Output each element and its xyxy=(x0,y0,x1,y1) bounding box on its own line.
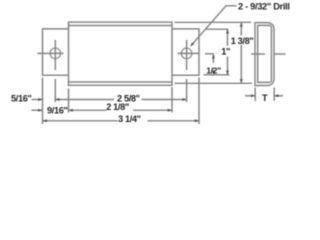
svg-text:2 1/8": 2 1/8" xyxy=(106,102,129,112)
svg-text:1 3/8": 1 3/8" xyxy=(231,36,254,46)
svg-text:1": 1" xyxy=(221,47,230,57)
svg-text:5/16": 5/16" xyxy=(11,94,32,104)
svg-text:9/16": 9/16" xyxy=(47,106,68,116)
svg-text:T: T xyxy=(262,93,268,103)
svg-text:2 - 9/32" Drill: 2 - 9/32" Drill xyxy=(238,2,290,12)
svg-text:1/2": 1/2" xyxy=(206,65,221,75)
svg-text:3 1/4": 3 1/4" xyxy=(118,114,141,124)
